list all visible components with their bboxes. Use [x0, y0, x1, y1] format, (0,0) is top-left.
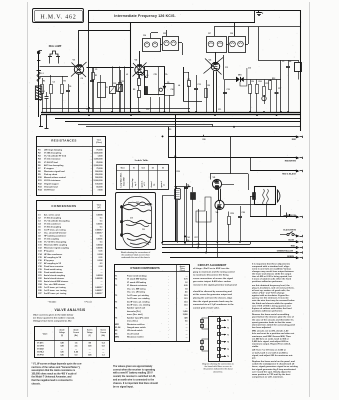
svg-text:S5: S5: [162, 168, 164, 170]
svg-text:nections of the valves and: nections of the valves and “General Note…: [32, 366, 81, 369]
svg-text:R4: R4: [141, 74, 143, 77]
svg-text:CIRCUIT ALIGNMENT: CIRCUIT ALIGNMENT: [198, 263, 227, 267]
svg-text:VALVE ANALYSIS: VALVE ANALYSIS: [55, 308, 86, 312]
wire V4/V5 link: [218, 189, 220, 201]
trimmer C23: [117, 85, 123, 92]
wire IF vertical C15: [223, 55, 225, 79]
svg-text:A piece of cabinet coils: A piece of cabinet coils either the fixe…: [252, 307, 292, 310]
svg-text:changes may result from ou: changes may result from output between: [252, 270, 294, 273]
svg-text:Ganged wave switch: Ganged wave switch: [127, 326, 146, 329]
svg-text:it most of cabinet coils: it most of cabinet coils either the fixe…: [252, 278, 292, 281]
svg-text:be no signal input.: be no signal input.: [113, 386, 134, 389]
svg-text:—: —: [186, 276, 188, 278]
svg-text:tone if left of 600 is b: tone if left of 600 is being quoted, and: [252, 304, 291, 307]
svg-text:C19: C19: [130, 218, 133, 220]
svg-text:Pick-up shunt: Pick-up shunt: [44, 173, 58, 176]
capacitor C28: [238, 216, 242, 218]
svg-text:over round the spot. Slowly: over round the spot. Slowly adjust the: [252, 370, 292, 373]
svg-text:Valve: Valve: [43, 334, 48, 336]
capacitor C11: [90, 80, 94, 82]
svg-text:R5: R5: [133, 89, 135, 91]
svg-text:2nd IF trans. sec. winding: 2nd IF trans. sec. winding: [127, 303, 151, 306]
svg-text:L5: L5: [147, 75, 149, 77]
svg-text:LW. Turn 7 or 170 into on 1,: LW. Turn 7 or 170 into on 1,000 or: [252, 349, 286, 352]
svg-text:T2: T2: [115, 295, 117, 297]
valve V3 circle: [211, 62, 219, 70]
svg-text:T2: T2: [227, 327, 229, 329]
resistor R19: [228, 217, 231, 225]
svg-text:quency are the minimum. I: quency are the minimum. It must be: [252, 297, 289, 300]
svg-text:V1 SG decoupling: V1 SG decoupling: [44, 227, 62, 229]
svg-text:LW fringe damping: LW fringe damping: [44, 150, 63, 152]
svg-text:R17: R17: [195, 237, 198, 239]
wire lead RED/WHITE: [168, 137, 170, 158]
svg-text:that the negative lead is: that the negative lead is connected to: [32, 379, 74, 382]
svg-text:Speaker input (Pri.) total: Speaker input (Pri.) total: [127, 316, 149, 319]
svg-text:L3: L3: [126, 74, 128, 76]
svg-text:Osc. circ. MW trimmer: Osc. circ. MW trimmer: [44, 283, 65, 286]
svg-text:control grid of each valve.: control grid of each valve.: [193, 306, 220, 309]
svg-text:chassis. It is important tha: chassis. It is important that there shou…: [113, 382, 158, 385]
svg-text:to maximum. Disconnect the: to maximum. Disconnect the fixing: [193, 274, 229, 277]
svg-text:the Model 7 Universal Avom: the Model 7 Universal Avometer, and: [32, 376, 73, 379]
svg-text:V5 PT2: V5 PT2: [37, 355, 45, 357]
svg-text:500,000: 500,000: [95, 171, 103, 173]
sketch lead squiggles upper: [123, 202, 151, 206]
svg-text:maximum output. Repeat Fr: maximum output. Repeat From which,: [252, 342, 291, 345]
svg-text:V1 CG resistance: V1 CG resistance: [44, 158, 61, 161]
right frame wire: [300, 10, 302, 131]
wire grid filament: [40, 66, 79, 68]
svg-text:and an earth wire is conn: and an earth wire is connected to the: [113, 379, 155, 382]
capacitor C15: [223, 92, 227, 94]
svg-text:C28: C28: [242, 212, 245, 214]
banner Intermediate Frequency 126 KC/S: [88, 10, 301, 12]
svg-text:Frame aerial windings: Frame aerial windings: [127, 276, 147, 278]
svg-text:T3: T3: [115, 301, 117, 303]
svg-text:OTHER COMPONENTS: OTHER COMPONENTS: [130, 266, 160, 270]
svg-text:100,000: 100,000: [95, 183, 103, 185]
svg-text:0.05: 0.05: [184, 285, 188, 287]
svg-text:the case of the circuits: the case of the circuits and thereafter …: [252, 318, 294, 321]
svg-text:Remove the frame aerial as: Remove the frame aerial assembling: [252, 313, 290, 316]
diode MR2 triangle: [163, 86, 167, 90]
svg-text:AF coupling to V5: AF coupling to V5: [44, 262, 62, 265]
capacitor C27 electrolytic: [191, 193, 196, 200]
scan speckle: [29, 4, 304, 394]
svg-text:AVC line decoupling: AVC line decoupling: [44, 164, 64, 167]
svg-text:—: —: [75, 349, 77, 351]
svg-text:C16: C16: [248, 68, 251, 70]
svg-text:—: —: [186, 333, 188, 335]
capacitor C3 and R4 top right: [280, 60, 282, 112]
svg-text:C21: C21: [136, 202, 139, 204]
svg-text:should be silenced by conn: should be silenced by connecting and: [193, 290, 232, 293]
svg-text:(Ohms): (Ohms): [180, 270, 186, 272]
svg-text:Value: Value: [97, 205, 101, 207]
svg-text:C9: C9: [167, 82, 169, 84]
svg-text:C4: C4: [81, 77, 83, 80]
svg-text:—: —: [101, 269, 103, 271]
IF transformer T2 primary box: [143, 39, 161, 52]
resistor R2: [50, 85, 53, 94]
svg-text:V1 CG condenser: V1 CG condenser: [44, 224, 61, 226]
label R20: [203, 135, 205, 137]
svg-text:V2 VP2: V2 VP2: [37, 346, 45, 348]
svg-text:MR2: MR2: [115, 337, 119, 339]
svg-text:MR1: MR1: [115, 324, 119, 326]
valve analysis table: [35, 327, 110, 358]
svg-text:kc/s and must be a positi: kc/s and must be a position and when set: [252, 332, 295, 335]
svg-text:connected via a 0.1 µF co: connected via a 0.1 µF condenser to the: [193, 303, 234, 306]
svg-text:Westector rectifier: Westector rectifier: [127, 336, 144, 339]
svg-text:T1: T1: [227, 320, 229, 322]
svg-text:are this obtained frequency: are this obtained frequency level, the: [252, 284, 291, 287]
svg-text:RED & BLACK: RED & BLACK: [282, 172, 296, 175]
svg-text:1,500,000: 1,500,000: [94, 153, 104, 155]
svg-text:—: —: [186, 324, 188, 326]
svg-text:Sketch showing the connecti: Sketch showing the connections of: [121, 251, 151, 254]
resistor R9: [249, 85, 252, 94]
wire V3 leads down: [213, 71, 215, 112]
svg-text:op. 2: op. 2: [135, 182, 137, 186]
svg-text:C10: C10: [86, 109, 89, 111]
svg-text:L4: L4: [178, 84, 180, 87]
resistor R1: [41, 85, 44, 94]
svg-text:0.6: 0.6: [185, 321, 188, 323]
svg-text:Ant. series cond.: Ant. series cond.: [44, 214, 61, 217]
svg-text:V1 filament resistance: V1 filament resistance: [127, 284, 147, 287]
svg-text:trans- (Sec. total): trans- (Sec. total): [127, 313, 143, 316]
svg-text:Fixed aerial tuning: Fixed aerial tuning: [44, 268, 62, 271]
bus line 2: [41, 112, 301, 114]
svg-text:Long Wave Med.: Long Wave Med.: [121, 172, 123, 187]
svg-text:items, signal generators si: items, signal generators signal to an ex…: [252, 365, 298, 368]
wire grid loop: [196, 197, 211, 222]
IF transformer T3 secondary box: [229, 37, 246, 53]
svg-text:1st IF trans. sec. tuning: 1st IF trans. sec. tuning: [44, 289, 67, 292]
svg-text:Switch Table: Switch Table: [135, 159, 150, 162]
trimmer bracket lower: [202, 339, 208, 351]
svg-text:at least up, matters of g: at least up, matters of good coils, the: [252, 289, 291, 292]
svg-text:H.M.V. 462: H.M.V. 462: [40, 15, 76, 21]
svg-text:C15: C15: [225, 67, 228, 69]
bus line 1: [42, 108, 190, 110]
resistor R5: [92, 73, 95, 80]
svg-text:DIAL LAMP: DIAL LAMP: [49, 45, 62, 48]
svg-text:C23: C23: [121, 81, 124, 83]
svg-text:0.0001: 0.0001: [96, 239, 103, 241]
svg-text:Value: Value: [97, 140, 101, 142]
svg-text:13.5: 13.5: [184, 295, 188, 297]
svg-text:0.0001: 0.0001: [96, 224, 103, 226]
svg-text:MW. circuits set to 470,: MW. circuits set to 470, checks 1-40: [252, 330, 289, 333]
capacitor C13: [194, 88, 198, 90]
svg-text:Aerial circuit MW trimmer: Aerial circuit MW trimmer: [44, 280, 68, 283]
svg-text:underneath the rear of the cha: underneath the rear of the chassis: [121, 256, 150, 259]
svg-text:Gram MW: Gram MW: [124, 177, 126, 186]
svg-text:(Ma): (Ma): [74, 335, 78, 337]
svg-text:V1 GB decoupling: V1 GB decoupling: [44, 153, 62, 155]
trimmer bracket upper: [202, 318, 208, 329]
svg-text:0.0002: 0.0002: [96, 245, 103, 247]
svg-text:1,500: 1,500: [97, 156, 103, 158]
svg-text:LW circuit switch: LW circuit switch: [127, 329, 143, 332]
svg-text:BLACK/WHITE: BLACK/WHITE: [283, 229, 296, 232]
svg-text:switch the maladjusted. It sho: switch the maladjusted. It should work a…: [252, 363, 295, 366]
resistor R8: [205, 89, 208, 98]
svg-text:T6: T6: [227, 356, 229, 358]
svg-text:70,000: 70,000: [96, 150, 103, 152]
svg-text:Screen: Screen: [87, 330, 92, 332]
resistances table: [37, 137, 106, 196]
svg-text:HF filter condenser: HF filter condenser: [44, 253, 62, 256]
IF transformer T2 secondary box: [163, 37, 179, 51]
svg-text:—: —: [186, 308, 188, 310]
small circle in IF box: [159, 88, 162, 91]
svg-text:250,000: 250,000: [95, 174, 103, 176]
svg-text:R8: R8: [208, 85, 210, 87]
svg-text:T5: T5: [227, 349, 229, 351]
svg-text:C13: C13: [198, 84, 201, 86]
svg-text:Westector AVC coupling: Westector AVC coupling: [44, 244, 68, 247]
svg-text:C16: C16: [171, 89, 174, 91]
svg-text:the board with filters as: the board with filters as seen in: [205, 365, 232, 368]
bus line 6: [78, 124, 213, 126]
svg-text:chassis.: chassis.: [32, 383, 41, 385]
svg-text:RED: RED: [291, 246, 296, 248]
svg-text:On-off switch: On-off switch: [127, 332, 140, 335]
svg-text:(Ohms): (Ohms): [96, 142, 102, 144]
svg-text:has been adjusted.: has been adjusted.: [252, 326, 272, 329]
resistor R5b: [138, 79, 141, 86]
svg-text:0.00017: 0.00017: [95, 230, 103, 232]
capacitor C6: [66, 90, 70, 92]
valve V5 circle: [212, 179, 221, 188]
svg-text:time of 400 or 6-30 is be: time of 400 or 6-30 is being quoted, but: [252, 275, 292, 278]
wire audio rail: [175, 115, 177, 242]
bus line LT+ BLUE: [162, 241, 298, 243]
bus line 4: [55, 118, 301, 120]
resistor R11: [263, 87, 266, 96]
resistor R6: [119, 83, 122, 92]
svg-text:100,000 ohms reach as the 400: 100,000 ohms reach as the 400 V scale of: [32, 372, 77, 375]
svg-text:1.8: 1.8: [185, 288, 188, 290]
svg-text:AF coupling to V4: AF coupling to V4: [44, 256, 62, 259]
svg-text:note the wire front may b: note the wire front may be screwed below: [252, 299, 295, 302]
svg-text:V1 anode LW loading: V1 anode LW loading: [127, 282, 147, 284]
resistor in IF box: [145, 71, 148, 78]
svg-text:13.5: 13.5: [184, 304, 188, 306]
ground at top: [258, 10, 260, 12]
resistor R7: [188, 81, 191, 87]
resistor R12: [269, 81, 272, 90]
svg-text:assumption that the mains: assumption that the mains resistance is: [32, 369, 76, 372]
svg-text:against with an insulator.: against with an insulator. A good fre-: [252, 294, 290, 297]
bus stub left 2: [46, 115, 48, 129]
svg-text:maximum, and MW. General 4: maximum, and MW. General 490, Then: [252, 335, 292, 338]
svg-text:of fringe—Dial 5 on to M.W. tu: of fringe—Dial 5 on to M.W. turn the: [193, 267, 230, 270]
left rail wire: [38, 51, 40, 117]
svg-text:R11: R11: [266, 83, 269, 85]
svg-text:C2: C2: [53, 82, 55, 84]
trimmer diagram: [209, 317, 232, 362]
wire verticals to bus: [92, 67, 94, 112]
chassis sketch box: [116, 193, 156, 250]
wire lead MAROON: [250, 196, 255, 198]
svg-text:the condenser block as see: the condenser block as seen from: [121, 253, 150, 256]
svg-text:The values given are appro: The values given are approximately: [113, 365, 153, 368]
resistor R10: [256, 85, 259, 94]
svg-text:the lower and chassis whil: the lower and chassis while the output: [252, 273, 292, 276]
svg-text:500,000: 500,000: [95, 177, 103, 179]
svg-text:Voltages have been computed as: Voltages have been computed as like: [33, 319, 72, 322]
svg-text:R1: R1: [43, 81, 45, 83]
svg-text:Fixed tone corrector: Fixed tone corrector: [44, 265, 64, 268]
svg-text:—: —: [61, 349, 63, 351]
svg-text:Aerial circuit coupling: Aerial circuit coupling: [44, 274, 66, 277]
svg-text:HF isolating condenser: HF isolating condenser: [44, 235, 66, 238]
svg-text:T4: T4: [227, 341, 229, 344]
svg-text:resistor in the signal generat: resistor in the signal generator and gro…: [193, 283, 237, 286]
svg-text:7,500: 7,500: [97, 189, 103, 191]
svg-text:V1 CG coupling: V1 CG coupling: [44, 239, 60, 241]
bus line GREEN: [170, 257, 298, 259]
svg-text:R7: R7: [188, 79, 190, 81]
svg-text:—: —: [186, 337, 188, 339]
svg-text:are those quoted in the makers: are those quoted in the makers' manual.: [33, 316, 75, 319]
wire V1 anode: [78, 30, 80, 65]
wire C16 loop: [164, 84, 174, 96]
svg-text:Screen: Screen: [101, 330, 106, 332]
svg-text:T1: T1: [115, 276, 117, 278]
svg-text:the fitted and chassis whi: the fitted and chassis while the speaker: [252, 302, 292, 305]
svg-text:quent generator leads to t: quent generator leads to that the same: [252, 321, 292, 324]
svg-text:C5: C5: [95, 69, 97, 71]
valve V4 circle: [215, 200, 224, 209]
wire transformer secondary down: [266, 205, 268, 217]
svg-text:3,800: 3,800: [183, 314, 188, 316]
sketch terminal rail: [121, 205, 123, 237]
svg-text:CONDENSERS: CONDENSERS: [51, 204, 76, 208]
svg-text:V1 anode MW loading: V1 anode MW loading: [127, 279, 147, 281]
svg-text:—: —: [101, 284, 103, 286]
svg-text:V3 2D2: V3 2D2: [37, 349, 45, 351]
condensers table: [37, 201, 106, 298]
svg-text:V1 4T1: V1 4T1: [37, 342, 44, 345]
svg-text:V4 grid stopper: V4 grid stopper: [44, 182, 59, 185]
transformer terminal blob: [253, 193, 256, 200]
svg-text:R9: R9: [252, 81, 254, 83]
svg-text:V1, V2 SG's decoupling: V1, V2 SG's decoupling: [44, 242, 67, 244]
svg-text:—: —: [186, 330, 188, 332]
battery plug symbol: [286, 213, 288, 219]
svg-text:R2: R2: [64, 81, 66, 83]
svg-text:0.00017: 0.00017: [95, 293, 103, 295]
bus line 3: [41, 114, 301, 116]
wires IF transformers to top rail: [150, 33, 152, 38]
svg-text:1,450: 1,450: [183, 310, 188, 313]
title box H.M.V. 462: [33, 9, 84, 23]
svg-text:0.0003: 0.0003: [96, 275, 103, 277]
bus line GB RED: [162, 247, 298, 249]
svg-text:1st IF trans. pri. winding: 1st IF trans. pri. winding: [127, 294, 150, 297]
svg-text:V1 SG HT feed: V1 SG HT feed: [44, 162, 59, 164]
svg-text:MR1: MR1: [238, 75, 242, 77]
svg-text:with a new HT battery rea: with a new HT battery reading 150 V: [113, 372, 153, 375]
wire top right link: [281, 60, 299, 62]
bus line GREEN/YELLOW: [162, 252, 298, 254]
svg-text:screw connections of across: screw connections of across the signal: [193, 277, 233, 280]
page edge right: [309, 2, 311, 397]
wire V5 top feed: [210, 173, 248, 175]
svg-text:—: —: [102, 352, 104, 354]
capacitor C16: [262, 96, 266, 100]
svg-text:R3: R3: [95, 75, 97, 77]
svg-text:420: 420: [184, 316, 187, 319]
IF transformer T3 primary box: [207, 37, 227, 53]
svg-text:2nd IF trans. pri. tuning: 2nd IF trans. pri. tuning: [44, 292, 67, 295]
svg-text:4.5: 4.5: [185, 291, 188, 294]
svg-text:R18: R18: [177, 171, 180, 173]
svg-text:(µF): (µF): [97, 207, 101, 209]
svg-text:Intermediate Frequency 126 KC/: Intermediate Frequency 126 KC/S.: [114, 14, 175, 18]
svg-text:75,000: 75,000: [96, 168, 103, 170]
wire feedback box: [162, 196, 164, 243]
svg-text:gen erator output. A 400 ohm: gen erator output. A 400 ohm. carbon: [193, 280, 232, 283]
svg-text:Osc. sec. LW tuning: Osc. sec. LW tuning: [127, 291, 146, 294]
svg-text:IF by-pass: IF by-pass: [44, 251, 55, 253]
svg-text:0.00017: 0.00017: [95, 287, 103, 289]
svg-text:1st IF trans. pri. tuning: 1st IF trans. pri. tuning: [44, 229, 66, 232]
IF secondary box: [145, 67, 165, 95]
svg-text:compared with a standard c: compared with a standard coil, align-: [252, 265, 290, 268]
svg-text:—: —: [89, 352, 91, 354]
svg-text:signal, and adjust 600 for: signal, and adjust 600 for maximum out-: [252, 354, 293, 357]
svg-text:correct when the receiver: correct when the receiver is operating: [113, 368, 156, 371]
svg-text:others (“dot” and “left”): others (“dot” and “left”) change: [252, 292, 285, 295]
svg-text:T3: T3: [115, 285, 117, 287]
wire lead RED & BLACK: [250, 158, 252, 171]
trimmer C22: [110, 87, 116, 94]
svg-text:—: —: [101, 281, 103, 283]
svg-text:Values: Values: [180, 268, 185, 270]
svg-text:T2: T2: [115, 279, 117, 281]
svg-text:13.5: 13.5: [184, 298, 188, 300]
svg-text:Replace the frame aerial on th: Replace the frame aerial on the panel, a…: [252, 360, 296, 363]
svg-text:sketch line.: sketch line.: [213, 370, 223, 373]
svg-text:positions adhesion performer.: positions adhesion performer.: [252, 309, 283, 312]
valve V1 circle: [74, 65, 83, 74]
wire screen rail: [230, 137, 232, 174]
svg-text:† Pre-set: † Pre-set: [84, 301, 92, 304]
wire IF box mid vertical: [158, 67, 160, 95]
svg-text:Aerial circuit trimmer: Aerial circuit trimmer: [44, 277, 64, 280]
svg-text:C28: C28: [230, 33, 233, 35]
svg-text:2,000,000: 2,000,000: [94, 165, 104, 167]
svg-text:C6: C6: [69, 86, 71, 88]
svg-text:R20: R20: [203, 139, 206, 141]
wire AVC rail: [88, 23, 90, 112]
valve V2 circle: [135, 65, 144, 74]
svg-text:1.2: 1.2: [185, 282, 188, 284]
wire C14 branch: [184, 187, 186, 243]
svg-text:alternate lines which the: alternate lines which the connecting pan…: [252, 323, 295, 326]
output transformer T4 box: [255, 187, 276, 205]
svg-text:—: —: [89, 349, 91, 351]
svg-text:2,490 kc/s signal, and adju: 2,490 kc/s signal, and adjust 600 for: [252, 340, 289, 343]
svg-text:T3: T3: [227, 335, 229, 337]
